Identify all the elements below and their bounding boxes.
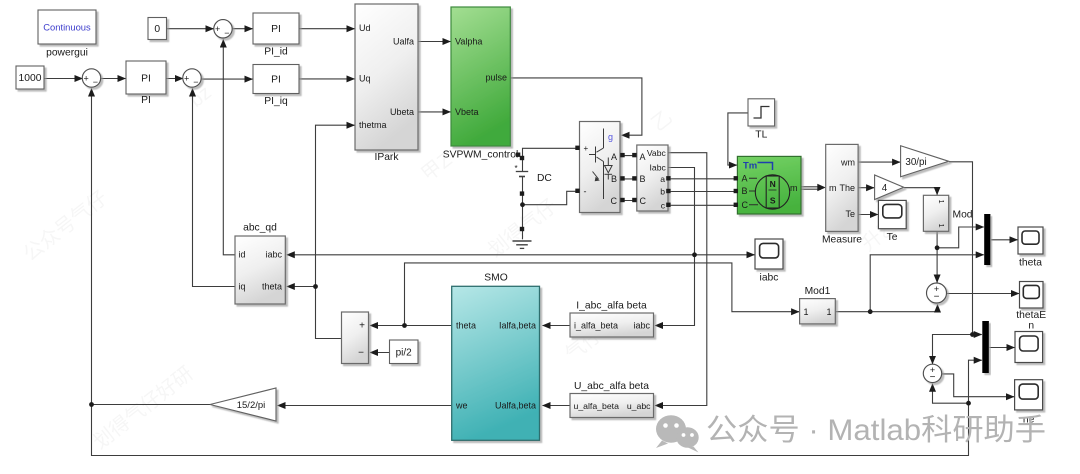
U_abc_alfa beta subsystem — [570, 394, 654, 418]
svg-text:−: − — [93, 77, 98, 87]
svg-text:theta: theta — [456, 320, 476, 330]
svg-text:I_abc_alfa beta: I_abc_alfa beta — [576, 301, 647, 312]
wire lineA branch to sum_w top — [933, 335, 973, 364]
svg-text:SMO: SMO — [484, 273, 507, 284]
svg-text:u_abc: u_abc — [627, 401, 651, 411]
svg-text:DC: DC — [537, 173, 552, 184]
mux2 — [982, 321, 989, 373]
svg-text:thetma: thetma — [359, 120, 387, 130]
svg-text:B: B — [611, 174, 617, 184]
node iabc junction — [692, 252, 697, 257]
svg-text:1: 1 — [804, 307, 809, 317]
wire theta riser to Mod1 — [405, 263, 800, 326]
PI_id block — [253, 13, 299, 44]
wire abc_qd id to sum3 bottom — [223, 40, 235, 255]
ground — [513, 241, 532, 248]
svg-text:n: n — [1028, 321, 1034, 332]
WeChat watermark icon — [656, 415, 699, 452]
svg-text:-: - — [584, 187, 587, 197]
svg-text:+: + — [184, 73, 189, 83]
wire mux2 to scope3 — [989, 347, 1014, 349]
pin meas B — [632, 176, 636, 180]
PI_iq block — [253, 65, 299, 94]
wire DC minus branch to bridge minus — [523, 191, 581, 204]
thetaE scope — [1020, 282, 1044, 309]
svg-text:we: we — [455, 400, 468, 410]
wire Measure wm to gain 30/pi — [859, 161, 901, 163]
IPark subsystem — [355, 4, 418, 150]
svg-text:Te: Te — [887, 232, 898, 243]
svg-text:Vbeta: Vbeta — [455, 107, 479, 117]
pin bridge minus — [575, 189, 579, 193]
Mod block — [923, 195, 948, 231]
svg-text:Mod: Mod — [953, 210, 973, 221]
svg-text:15/2/pi: 15/2/pi — [237, 400, 266, 411]
svg-text:theta: theta — [262, 281, 282, 291]
wire Measure Te to Te scope — [859, 214, 878, 216]
svg-text:Te: Te — [845, 209, 855, 219]
svg-text:Ubeta: Ubeta — [390, 107, 414, 117]
pin DC mid — [520, 191, 524, 195]
wire Mod1 riser to mux1 input2 — [870, 255, 984, 312]
wire iabc line left to abc_qd — [287, 254, 695, 256]
svg-text:g: g — [608, 132, 613, 142]
constant 1000 — [16, 66, 44, 89]
electrical port squares — [516, 146, 738, 232]
wire TL to machine Tm — [728, 113, 749, 165]
svg-text:C: C — [640, 196, 647, 206]
node DC minus junction — [520, 202, 525, 207]
svg-text:u_alfa_beta: u_alfa_beta — [574, 401, 620, 411]
wire DC plus to bridge plus — [523, 148, 581, 171]
wire Mod1 output to sum_th bottom — [836, 305, 938, 312]
wire PI_iq to IPark Uq — [300, 78, 355, 80]
svg-text:1: 1 — [826, 307, 831, 317]
wire PI to sum2 — [167, 78, 184, 80]
machine rotor icon — [755, 175, 789, 209]
svg-text:SVPWM_control: SVPWM_control — [443, 150, 519, 161]
svg-text:1: 1 — [937, 224, 946, 228]
svg-text:B: B — [640, 174, 646, 184]
wire sum1 to PI — [101, 78, 125, 80]
node theta branch — [313, 284, 318, 289]
wire 1000 to sum1 — [45, 78, 83, 80]
wire sum3 to PI_id — [233, 28, 253, 30]
PMSM machine block — [737, 156, 801, 214]
wire Mod branch to sum_th top — [936, 248, 938, 283]
svg-text:公众号 · Matlab科研助手: 公众号 · Matlab科研助手 — [706, 414, 1046, 447]
svg-text:Ualfa,beta: Ualfa,beta — [495, 400, 536, 410]
svg-text:Ud: Ud — [359, 23, 371, 33]
svg-text:Valpha: Valpha — [455, 36, 482, 46]
node lineA junction — [970, 332, 975, 337]
pin meas C — [632, 198, 636, 202]
wire abc_qd iq to sum2 bottom — [193, 89, 236, 287]
pin meas c — [666, 203, 670, 207]
wire u_alfa_beta to SMO — [543, 405, 571, 407]
svg-text:wm: wm — [840, 157, 855, 167]
wire 30/pi down line A — [949, 162, 972, 335]
wire lineA branch to mux2 input1 — [973, 334, 982, 336]
theta scope — [1018, 227, 1043, 254]
wire meas a to machine A — [669, 178, 738, 180]
svg-text:iq: iq — [239, 281, 246, 291]
PI speed block — [126, 61, 166, 94]
universal bridge (inverter) — [580, 122, 621, 213]
svg-text:A: A — [611, 152, 617, 162]
wire meas Iabc down to I_abc_alfa_beta — [655, 168, 695, 326]
wire add output to IPark thetma — [316, 125, 355, 338]
svg-text:+: + — [215, 24, 220, 34]
wire sum_th output to thetaE scope — [947, 293, 1019, 295]
svg-text:−: − — [358, 348, 364, 359]
machine m bus arrowhead — [817, 184, 825, 192]
wire sum_w output to ne scope — [942, 374, 1014, 397]
node gain15 junction — [89, 402, 94, 407]
svg-text:C: C — [611, 196, 618, 206]
iabc scope — [755, 239, 783, 269]
svg-text:+: + — [359, 321, 365, 332]
wire Mod output down — [936, 232, 938, 248]
node Mod1 junction — [868, 309, 873, 314]
svg-text:abc_qd: abc_qd — [243, 223, 277, 234]
gain 30/pi — [901, 146, 949, 177]
svg-text:4: 4 — [882, 183, 888, 194]
SVPWM_control subsystem — [451, 7, 510, 146]
wire bridge A to meas A — [621, 155, 638, 157]
wire bridge B to meas B — [621, 178, 638, 180]
svg-text:−: − — [193, 77, 198, 87]
pin bridge plus — [575, 146, 579, 150]
svg-text:Mod1: Mod1 — [805, 286, 831, 297]
wire mux1 to theta scope — [991, 239, 1018, 241]
three-phase V-I measurement — [637, 145, 668, 211]
pin bridge A — [620, 153, 624, 157]
svg-text:Uq: Uq — [359, 74, 371, 84]
pin DC bottom — [520, 227, 524, 231]
svg-text:Tm: Tm — [743, 161, 757, 172]
sum S1 — [82, 69, 100, 87]
add block (theta - pi/2) — [342, 312, 369, 364]
pin SVPWM corner — [516, 153, 520, 157]
Mod1 block — [800, 299, 836, 324]
wire Mod branch to mux1 input1 — [937, 227, 984, 248]
wire riser to sum1 bottom — [91, 89, 93, 405]
wire SMO theta to add block — [370, 325, 452, 327]
pin bridge B — [620, 176, 624, 180]
abc_qd subsystem — [235, 236, 285, 304]
pin meas b — [666, 189, 670, 193]
svg-text:Ialfa,beta: Ialfa,beta — [499, 320, 536, 330]
faint background watermarks — [19, 82, 903, 454]
svg-text:iabc: iabc — [633, 320, 650, 330]
wire machine m to Measure (bus double line) — [802, 187, 822, 189]
wire 0 to sum3 — [167, 28, 214, 30]
wire pi/2 to add minus — [370, 352, 390, 354]
svg-text:PI_id: PI_id — [264, 47, 288, 58]
Measure subsystem — [826, 144, 858, 231]
wire junction dots — [89, 202, 975, 407]
wire sum2 to PI_iq — [202, 78, 253, 80]
mux1 — [984, 214, 990, 265]
svg-text:thetaE: thetaE — [1016, 310, 1046, 321]
Te scope — [878, 200, 906, 228]
sum theta error — [927, 283, 947, 303]
svg-text:Continuous: Continuous — [43, 21, 91, 32]
sum speed error — [923, 364, 941, 382]
svg-text:m: m — [790, 183, 798, 193]
wire i_alfa_beta to SMO — [543, 325, 571, 327]
pin machine B — [734, 189, 738, 193]
svg-text:+: + — [584, 144, 589, 153]
svg-text:theta: theta — [1019, 258, 1042, 269]
pin DC top — [520, 156, 524, 160]
svg-text:−: − — [224, 28, 229, 38]
svg-text:A: A — [640, 152, 646, 162]
ne scope — [1015, 380, 1043, 410]
svg-text:PI: PI — [141, 74, 151, 85]
svg-text:1: 1 — [937, 200, 946, 204]
svg-text:B: B — [742, 186, 748, 196]
svg-text:powergui: powergui — [46, 48, 88, 59]
svg-text:−: − — [930, 372, 936, 383]
svg-text:0: 0 — [154, 24, 160, 35]
pin machine C — [734, 203, 738, 207]
wire IPark Ubeta to SVPWM Vbeta — [419, 111, 451, 113]
wire PI_id to IPark Ud — [300, 28, 355, 30]
DC voltage source — [516, 172, 528, 177]
constant 0 — [148, 18, 167, 40]
wire SVPWM pulse to bridge g — [511, 78, 642, 135]
svg-text:1000: 1000 — [19, 73, 42, 84]
pin bridge C — [620, 198, 624, 202]
wire bridge C to meas C — [621, 200, 638, 202]
wire meas b to machine B — [669, 191, 738, 193]
svg-text:b: b — [660, 187, 665, 197]
svg-text:pi/2: pi/2 — [396, 348, 413, 359]
svg-text:Iabc: Iabc — [650, 163, 667, 173]
SMO subsystem — [452, 286, 540, 440]
wire DC minus down to ground — [522, 177, 524, 239]
sum S2 — [183, 69, 201, 87]
wire meas c to machine C — [669, 204, 738, 206]
svg-text:IPark: IPark — [374, 152, 399, 163]
svg-text:PI: PI — [271, 24, 281, 35]
svg-text:PI_iq: PI_iq — [264, 96, 288, 107]
powergui block — [38, 10, 96, 44]
svg-text:i_alfa_beta: i_alfa_beta — [574, 320, 618, 330]
svg-text:TL: TL — [755, 130, 767, 141]
sum S3 — [214, 20, 232, 38]
wire gain4 to Mod — [904, 188, 937, 195]
scope3 (speed compare) — [1015, 332, 1043, 363]
svg-text:N: N — [770, 179, 776, 189]
bridge IGBT/diode icon — [589, 129, 612, 200]
svg-text:A: A — [742, 173, 748, 183]
svg-text:pulse: pulse — [485, 73, 507, 83]
svg-text:Measure: Measure — [822, 235, 862, 246]
svg-text:Ualfa: Ualfa — [393, 36, 414, 46]
node theta-add junction — [402, 323, 407, 328]
svg-text:−: − — [934, 292, 940, 303]
wire theta branch to abc_qd theta — [287, 286, 316, 288]
svg-text:PI: PI — [271, 75, 281, 86]
wire Measure The to gain 4 — [859, 187, 875, 189]
svg-text:PI: PI — [141, 95, 151, 106]
svg-text:S: S — [770, 196, 776, 206]
gain 15/2/pi (left pointing) — [210, 388, 276, 421]
pin meas a — [666, 176, 670, 180]
svg-text:The: The — [839, 183, 855, 193]
svg-text:iabc: iabc — [760, 273, 779, 284]
pin meas A — [632, 153, 636, 157]
wire SMO we to gain 15/2/pi — [278, 405, 453, 407]
wire iabc line right to iabc scope — [695, 254, 755, 256]
svg-text:c: c — [661, 200, 666, 210]
svg-text:+: + — [84, 73, 89, 83]
node we feedback junction — [966, 401, 971, 406]
TL step block — [748, 99, 775, 126]
svg-text:30/pi: 30/pi — [905, 157, 926, 168]
svg-text:a: a — [660, 174, 665, 184]
wire bottom long feedback — [92, 403, 969, 455]
wire gain 15/2/pi output left — [92, 404, 211, 406]
pin machine A — [734, 176, 738, 180]
gain 4 — [875, 175, 904, 200]
wire meas Vabc down to U_abc_alfa_beta — [655, 153, 707, 406]
wire we branch to sum_w bottom — [933, 384, 969, 403]
svg-text:id: id — [239, 250, 246, 260]
pi/2 constant — [390, 340, 419, 364]
svg-text:iabc: iabc — [265, 250, 282, 260]
svg-text:U_abc_alfa beta: U_abc_alfa beta — [574, 381, 649, 392]
svg-text:m: m — [829, 183, 837, 193]
svg-text:C: C — [742, 200, 749, 210]
svg-text:Vabc: Vabc — [647, 148, 667, 158]
wire IPark Ualfa to SVPWM Valpha — [419, 41, 451, 43]
wire we branch to mux2 input2 — [969, 360, 982, 403]
svg-text:*: * — [514, 164, 517, 173]
I_abc_alfa beta subsystem — [570, 313, 654, 337]
node Mod out junction — [935, 245, 940, 250]
